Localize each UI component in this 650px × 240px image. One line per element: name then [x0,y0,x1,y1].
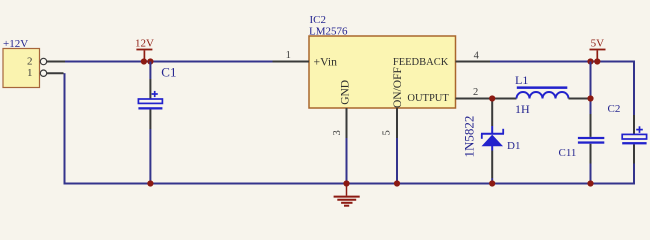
inductor value 1H [515,102,530,116]
diode D1 branch wires [491,99,493,184]
capacitor C2 branch wires [633,62,635,184]
wire bottom rail [64,183,636,185]
IC2 pin name GND (rotated) [339,80,351,105]
junction dot output branch top [587,58,593,64]
svg-text:IC2: IC2 [310,14,327,26]
junction dot pin3 at bottom rail [343,180,349,186]
svg-text:C11: C11 [559,147,577,159]
svg-text:5: 5 [381,130,392,135]
ground symbol [334,184,360,206]
inductor L1 [517,86,569,98]
connector J1 box [3,49,40,88]
capacitor C1 designator [161,65,176,80]
svg-text:1: 1 [27,67,33,79]
IC2 pin name +Vin [314,55,338,68]
svg-text:5V: 5V [591,38,605,50]
svg-text:1N5822: 1N5822 [462,116,477,158]
svg-text:1: 1 [286,50,291,61]
junction dot C1 bottom [147,180,153,186]
wire top rail right (5V net) [490,61,635,63]
connector label +12V [3,38,28,50]
wire OUTPUT run to inductor [486,98,517,100]
IC2 LM2576 body [309,36,456,108]
junction dot C1 branch top [147,58,153,64]
wire top rail left (12V net) [65,61,273,63]
diode value 1N5822 (rotated) [462,116,477,158]
diode D1 designator [507,140,520,152]
svg-text:+Vin: +Vin [314,55,338,68]
svg-text:FEEDBACK: FEEDBACK [393,57,449,68]
junction dot 5V tick [594,58,600,64]
power net 12V label [135,37,154,60]
capacitor C1 polarized symbol [138,91,162,110]
capacitor C1 branch wires [149,62,151,184]
svg-text:2: 2 [473,87,478,98]
pin 5 (ON/OFF) wire [381,108,397,184]
svg-text:2: 2 [27,55,33,67]
svg-text:L1: L1 [515,73,528,87]
junction dot D1 top [489,95,495,101]
svg-text:4: 4 [474,50,480,61]
capacitor C11 symbol [578,137,604,144]
inductor L1 designator [515,73,528,87]
IC2 value LM2576 [309,25,348,37]
capacitor C2 polarized symbol [622,126,646,144]
pin 2 stub (OUTPUT) [456,87,487,99]
junction dot pin5 at bottom rail [394,180,400,186]
svg-text:C2: C2 [608,103,621,115]
svg-text:+12V: +12V [3,38,28,50]
wire output node vertical [590,62,592,115]
IC2 pin name OUTPUT [407,93,449,104]
svg-text:GND: GND [339,80,351,105]
svg-text:LM2576: LM2576 [309,25,348,37]
capacitor C11 branch wires [590,114,592,184]
capacitor C11 designator [559,147,577,159]
svg-text:OUTPUT: OUTPUT [407,93,449,104]
capacitor C2 designator [608,103,621,115]
svg-text:D1: D1 [507,140,520,152]
pin 3 (GND) wire [332,108,347,184]
svg-text:12V: 12V [135,37,154,49]
IC2 pin name ON/OFF (rotated) [392,67,404,108]
wire inductor to output node [569,98,590,100]
junction dot D1 bottom [489,180,495,186]
junction dot C11 bottom [587,180,593,186]
IC2 pin name FEEDBACK [393,57,449,68]
svg-text:C1: C1 [161,65,176,80]
wire left vertical from pin 1 to bottom rail [64,73,66,184]
connector pin 2 [27,55,65,67]
diode D1 schottky symbol [481,129,504,146]
IC2 designator [310,14,327,26]
svg-text:ON/OFF: ON/OFF [392,67,404,108]
power net 5V label [590,38,606,61]
junction dot 12V tick [141,58,147,64]
pin 1 stub (+Vin) [273,50,310,62]
connector pin 1 [27,67,63,79]
svg-text:3: 3 [332,130,343,135]
pin 4 stub (FEEDBACK) [456,50,491,61]
svg-text:1H: 1H [515,102,530,116]
junction dot L1 output [587,95,593,101]
